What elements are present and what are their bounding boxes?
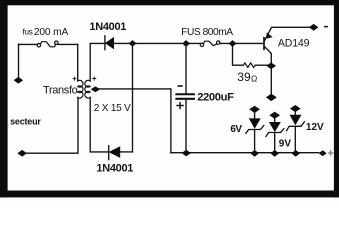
svg-text:1N4001: 1N4001: [89, 21, 126, 33]
fuse F1 (fus 200 mA): [19, 41, 78, 47]
diode D2 1N4001: [109, 146, 120, 160]
zener D3 (6V): [246, 112, 264, 153]
svg-text:secteur: secteur: [10, 116, 41, 126]
node: junction zener 12V / rail: [292, 151, 299, 157]
svg-text:2 X 15 V: 2 X 15 V: [94, 103, 131, 114]
fuse F2 (FUS 800mA): [200, 41, 220, 47]
transistor Q1 AD149: [264, 27, 309, 63]
label: - (emitter output): [325, 26, 327, 28]
node: 0V output terminal: [319, 151, 326, 156]
wire: D2 to rectifier drop: [120, 151, 133, 153]
node: zener 9V tap terminal: [270, 112, 280, 118]
wire: rectifier output drop to bottom diode: [132, 43, 134, 151]
node: secteur terminal A: [14, 77, 23, 83]
label: + (C1 bottom): [177, 103, 183, 109]
svg-text:9V: 9V: [279, 138, 292, 149]
svg-text:fus: fus: [23, 27, 33, 37]
transformer T1 primary winding: [78, 80, 83, 98]
svg-text:2200uF: 2200uF: [197, 92, 234, 104]
node: zener 12V tap terminal: [291, 105, 301, 111]
node: junction capacitor tap: [183, 41, 190, 47]
label: + (0V output, gray): [329, 151, 333, 155]
polarity mark + (primary): [73, 77, 76, 80]
svg-text:1N4001: 1N4001: [96, 163, 133, 175]
node: junction C1 / rail: [183, 150, 191, 155]
svg-text:12V: 12V: [306, 122, 324, 133]
label: 39 ohm: [237, 70, 257, 84]
wire: fuse F2 to base of Q1: [220, 42, 264, 44]
wire: center tap to 0V rail: [99, 89, 171, 153]
polarity mark + (secondary): [93, 77, 96, 80]
wire: top rail D1 to fuse F2: [114, 42, 200, 44]
diode D1 1N4001: [105, 36, 114, 50]
svg-text:6V: 6V: [230, 124, 242, 135]
svg-text:200 mA: 200 mA: [34, 27, 69, 38]
wire: secondary top lead to D1: [90, 43, 105, 81]
node: transformer center tap: [91, 87, 99, 92]
wire: mains line L2 and primary bottom lead: [23, 97, 78, 153]
svg-text:Transfo: Transfo: [43, 84, 78, 96]
capacitor C1 2200uF: [176, 44, 194, 154]
svg-text:39: 39: [237, 70, 251, 84]
transformer T1 secondary winding: [85, 80, 90, 98]
node: junction rectifier output: [129, 41, 136, 47]
wire: secondary bottom lead to D2: [90, 97, 108, 151]
wire: primary top lead: [77, 44, 79, 81]
zener D4 (9V): [266, 118, 284, 153]
node: junction collector / R1: [267, 63, 276, 69]
svg-text:Ω: Ω: [251, 73, 257, 83]
label: fus 200 mA: [23, 27, 69, 38]
node: collector output tap terminal: [266, 94, 276, 101]
zener D5 (12V): [287, 112, 305, 153]
wire: mains line L1 vertical: [18, 44, 20, 77]
node: emitter output terminal: [309, 24, 318, 30]
wire: 0V bottom rail: [171, 152, 319, 154]
label: - (C1 top): [178, 85, 182, 87]
node: junction zener 9V / rail: [271, 151, 278, 157]
svg-text:FUS 800mA: FUS 800mA: [181, 27, 233, 38]
node: junction resistor tap: [229, 41, 236, 47]
node: junction zener 6V / rail: [251, 151, 258, 157]
resistor R1 39 ohm: [233, 44, 268, 68]
node: zener 6V tap terminal: [250, 106, 260, 113]
svg-text:AD149: AD149: [278, 38, 310, 50]
wire: collector drop to tap: [270, 66, 272, 95]
node: secteur terminal B: [18, 150, 27, 156]
